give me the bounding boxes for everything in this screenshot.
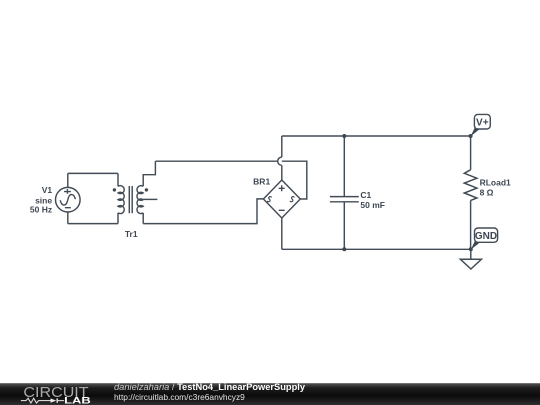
phase dot secondary <box>145 188 148 191</box>
wire V1 loop bottom <box>68 223 118 225</box>
phase dot primary <box>113 188 116 191</box>
voltage source V1 <box>56 187 81 212</box>
wire - rail <box>282 248 471 250</box>
core <box>128 186 130 213</box>
ground symbol <box>460 249 481 269</box>
wire bridge top to +rail with hop <box>281 165 283 180</box>
wire secondary bottom lead <box>142 213 144 224</box>
wire + rail <box>282 135 471 137</box>
svg-text:Tr1: Tr1 <box>125 229 138 239</box>
resistor RLoad1 <box>464 136 477 249</box>
svg-text:V+: V+ <box>476 117 489 128</box>
net flag V+ <box>469 114 491 138</box>
wire V1 loop top <box>68 172 118 174</box>
svg-text:LAB: LAB <box>64 396 91 405</box>
svg-text:C1: C1 <box>360 190 371 200</box>
junction C1 bottom <box>342 247 346 251</box>
bridge rectifier BR1 <box>263 180 300 218</box>
svg-text:50 mF: 50 mF <box>360 200 385 210</box>
primary winding <box>118 186 124 214</box>
center tap stub <box>143 198 157 200</box>
CircuitLab logo <box>0 383 110 405</box>
secondary winding <box>137 186 143 214</box>
junction C1 top <box>342 134 346 138</box>
svg-text:GND: GND <box>475 231 497 242</box>
capacitor C1 <box>330 136 359 249</box>
wire bridge bottom <box>281 218 283 249</box>
wire primary bottom lead <box>117 213 119 224</box>
svg-text:50 Hz: 50 Hz <box>30 204 52 214</box>
svg-text:V1: V1 <box>42 185 53 195</box>
svg-text:RLoad1: RLoad1 <box>480 178 511 188</box>
svg-text:8 Ω: 8 Ω <box>480 187 494 197</box>
net flag GND <box>469 228 498 251</box>
wire secondary top to bridge right <box>155 161 306 199</box>
wire secondary top lead <box>143 161 155 186</box>
transformer Tr1 <box>113 161 158 223</box>
wire secondary bottom to bridge left <box>143 199 263 224</box>
wire V1 top lead <box>67 173 69 187</box>
svg-text:BR1: BR1 <box>253 177 270 187</box>
wire V1 bottom lead <box>67 212 69 224</box>
wire primary top lead <box>117 173 119 186</box>
